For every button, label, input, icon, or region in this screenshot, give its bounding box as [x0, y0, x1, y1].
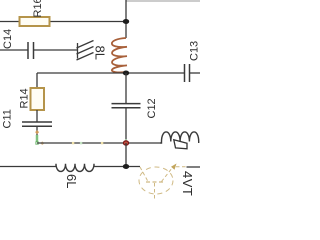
TV4 lead to wire dashes — [176, 166, 186, 168]
TV4 lead emitter down — [154, 183, 156, 200]
wire C14 right to ground — [34, 49, 78, 51]
marker diamond tan — [40, 141, 44, 145]
wire C13 right — [190, 72, 201, 74]
resistor R14 — [31, 88, 45, 110]
inductor L6 — [56, 164, 94, 172]
junction node A — [123, 19, 129, 24]
wire R14 to C11 — [36, 110, 38, 122]
svg-text:6L: 6L — [64, 174, 79, 188]
svg-text:C13: C13 — [189, 41, 201, 61]
wire vertical top edge to L8 — [125, 0, 127, 38]
wire selected green segment — [36, 135, 39, 143]
junction mid red — [123, 141, 128, 145]
inductor L7 — [160, 132, 199, 143]
wire net B corner down to R14 — [36, 73, 38, 88]
svg-text:8L: 8L — [93, 46, 108, 60]
wire bottom left — [0, 166, 56, 168]
wire C12 down to mid junction — [125, 108, 127, 143]
svg-text:C12: C12 — [146, 98, 158, 118]
svg-text:4VT: 4VT — [180, 171, 195, 196]
wire mid junction down — [125, 143, 127, 167]
TV4 arrow — [171, 164, 177, 170]
wire node B down to C12 — [125, 73, 127, 104]
capacitor C11 — [22, 122, 52, 126]
junction node C — [123, 164, 129, 169]
chassis ground — [77, 41, 94, 61]
TV4 base bar — [146, 181, 163, 183]
wire C14 left — [0, 49, 28, 51]
capacitor C14 — [28, 42, 34, 59]
label L7 — [174, 140, 187, 149]
wire mid horizontal — [37, 142, 160, 144]
faint sheet line top right — [126, 0, 200, 2]
marker diamond orange — [35, 130, 39, 134]
marker tick yellow — [72, 142, 74, 144]
wire bottom right — [94, 166, 140, 168]
svg-text:C14: C14 — [2, 29, 14, 49]
wire net A left segment — [0, 21, 19, 23]
resistor R16 — [20, 17, 50, 26]
wire C11 down — [36, 126, 38, 136]
marker tick green — [80, 142, 82, 144]
wire net B horizontal — [37, 72, 185, 74]
node green corner — [36, 142, 39, 145]
inductor L8 — [112, 38, 127, 72]
wire green tinge above mid junction — [125, 139, 127, 141]
svg-text:C11: C11 — [2, 109, 14, 128]
wire net A right segment — [50, 21, 126, 23]
capacitor C12 — [112, 104, 141, 108]
capacitor C13 — [185, 64, 190, 82]
transistor TV4 dashed circle — [139, 167, 173, 194]
TV4 lead collector — [162, 168, 173, 182]
wire right short — [187, 166, 201, 168]
svg-text:R14: R14 — [19, 88, 31, 108]
junction node B — [123, 71, 129, 76]
svg-text:R16: R16 — [32, 0, 44, 18]
TV4 lead base — [140, 167, 148, 182]
marker tick yellow2 — [101, 142, 103, 144]
